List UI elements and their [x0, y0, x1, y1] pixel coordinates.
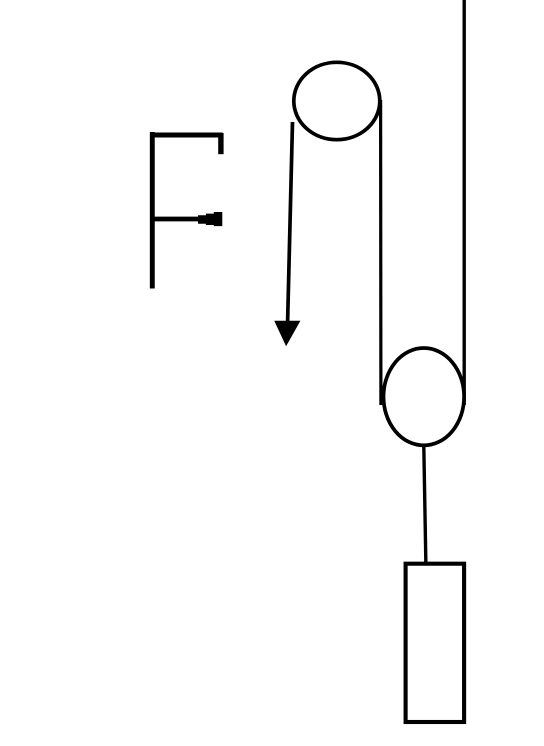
stepped arrowhead at end of F middle bar — [198, 212, 222, 226]
label F: vertical stroke — [150, 132, 155, 289]
downward force arrow: shaft — [288, 122, 293, 322]
weight block — [406, 564, 465, 722]
label F: top bar — [150, 132, 223, 137]
rope from upper pulley down to lower pulley — [379, 100, 382, 405]
label F: tick at right end of top bar — [218, 133, 223, 154]
upper pulley — [294, 62, 380, 139]
lower pulley — [384, 348, 465, 445]
fixed rope on right side from top edge to lower pulley — [463, 0, 466, 405]
downward force arrow: head — [274, 321, 300, 347]
rope from lower pulley to weight — [424, 446, 426, 565]
label F: middle bar — [150, 217, 199, 222]
